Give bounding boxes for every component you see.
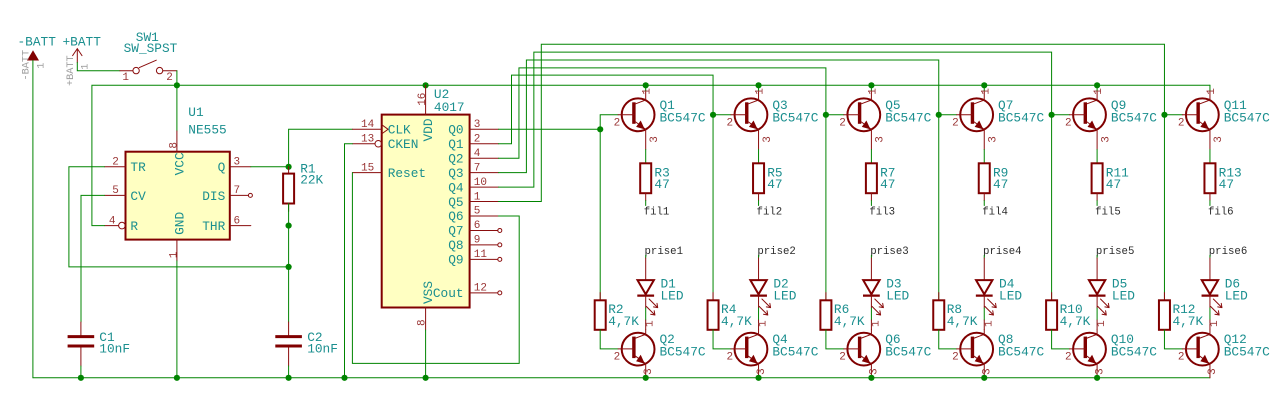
svg-text:4,7K: 4,7K [947, 314, 978, 329]
D1 reference [661, 276, 677, 291]
wire q6 reset [352, 173, 519, 364]
resistor R13 47 [1204, 163, 1215, 200]
resistor R8 4,7K [933, 293, 944, 330]
svg-text:2: 2 [474, 133, 481, 145]
transistor Q1 BC547C (top) [618, 90, 654, 149]
U1 reference designator [188, 105, 204, 120]
D6 value LED [1225, 289, 1248, 304]
svg-text:fil6: fil6 [1208, 206, 1234, 218]
svg-text:1: 1 [642, 88, 654, 95]
wire D4 cathode to Q8 collector [983, 296, 985, 308]
R8 reference [947, 302, 962, 317]
wire q3 bus [499, 60, 939, 173]
Q3 pin 1 number [755, 88, 767, 95]
transistor Q4 BC547C (bottom) [731, 329, 767, 377]
R4 value 4,7K [721, 314, 752, 329]
Q8 pin 1 number [983, 320, 995, 327]
R10 reference [1060, 302, 1083, 317]
wire prise6 to LED D6 [1209, 255, 1211, 258]
Q9 pin 3 number [1100, 136, 1112, 143]
svg-text:fil1: fil1 [644, 206, 670, 218]
wire base h [826, 114, 844, 116]
junction C1 gnd [78, 375, 84, 381]
svg-text:SW_SPST: SW_SPST [124, 41, 178, 56]
Q8 pin 3 number [981, 368, 993, 375]
wire base bottom [600, 330, 618, 349]
R5 reference [767, 165, 782, 180]
svg-text:1: 1 [755, 88, 767, 95]
R2 value 4,7K [608, 314, 639, 329]
D2 value LED [773, 289, 796, 304]
svg-text:2: 2 [614, 352, 621, 364]
R6 reference [834, 302, 849, 317]
svg-text:Q6: Q6 [448, 209, 463, 224]
svg-text:6: 6 [474, 220, 481, 232]
wire TR loop [69, 167, 289, 267]
transistor Q6 BC547C (bottom) [844, 329, 880, 377]
LED D2 [750, 280, 770, 315]
svg-text:BC547C: BC547C [660, 110, 706, 125]
wire +BATT to SW1 pin1 [77, 63, 120, 71]
svg-text:4: 4 [474, 148, 481, 160]
wire q0 [499, 128, 601, 130]
D3 reference [886, 276, 901, 291]
svg-text:BC547C: BC547C [998, 110, 1044, 125]
junction collector [643, 82, 649, 88]
Q5 pin 3 number [875, 136, 887, 143]
resistor R7 47 [866, 163, 877, 200]
junction emitter gnd [755, 375, 761, 381]
D5 reference [1112, 276, 1127, 291]
wire to U1 pin8 [176, 85, 178, 131]
svg-text:fil5: fil5 [1095, 206, 1121, 218]
R8 value 4,7K [947, 314, 978, 329]
junction col2 base [710, 112, 716, 118]
R5 value 47 [767, 177, 782, 192]
wire fil stub [1209, 201, 1211, 206]
C1 reference [99, 330, 115, 345]
svg-text:12: 12 [474, 283, 487, 295]
label fil5 [1095, 206, 1121, 218]
R7 value 47 [880, 177, 895, 192]
svg-text:prise2: prise2 [757, 246, 795, 258]
U1 pin 3 Q [218, 157, 251, 176]
svg-text:Q0: Q0 [448, 123, 463, 138]
wire q5 bus [499, 44, 1165, 201]
junction col4 base [936, 112, 942, 118]
svg-text:+BATT: +BATT [63, 34, 102, 49]
resistor R11 47 [1092, 163, 1103, 200]
wire emitter [645, 150, 647, 164]
svg-text:Q: Q [218, 160, 226, 175]
svg-text:2: 2 [726, 117, 733, 129]
Q1 value BC547C [660, 110, 706, 125]
Q8 value BC547C [998, 345, 1044, 360]
U2 pin 15 Reset [352, 162, 426, 181]
wire base bottom [939, 330, 957, 349]
wire q2 bus [499, 68, 826, 158]
svg-text:15: 15 [361, 162, 374, 174]
wire +V rail [177, 84, 1210, 86]
Q3 pin 3 number [762, 136, 774, 143]
transistor Q8 BC547C (bottom) [957, 329, 993, 377]
svg-text:prise3: prise3 [870, 246, 908, 258]
svg-text:3: 3 [762, 136, 774, 143]
svg-text:LED: LED [999, 289, 1022, 304]
svg-text:2: 2 [1065, 352, 1072, 364]
junction col6 base [1161, 112, 1167, 118]
LED D4 [976, 280, 996, 315]
pin number 2 of SW1 [166, 72, 173, 84]
svg-text:3: 3 [1207, 368, 1219, 375]
Q4 pin 3 number [756, 368, 768, 375]
svg-text:CV: CV [130, 189, 146, 204]
U1 pin 7 DIS (unconnected) [202, 185, 252, 204]
svg-text:2: 2 [952, 352, 959, 364]
U2 pin 12 Cout (unconnected) [433, 283, 502, 302]
svg-text:1: 1 [37, 63, 48, 69]
R12 value 4,7K [1172, 314, 1203, 329]
resistor R10 4,7K [1046, 293, 1057, 330]
Q6 pin 1 number [870, 320, 882, 327]
svg-text:BC547C: BC547C [772, 345, 818, 360]
Q12 value BC547C [1224, 345, 1270, 360]
svg-text:3: 3 [643, 368, 655, 375]
LED D6 [1202, 280, 1222, 315]
U1 pin 1 GND [168, 212, 187, 261]
svg-text:Q3: Q3 [448, 166, 463, 181]
junction collector [981, 82, 987, 88]
svg-text:prise6: prise6 [1209, 246, 1247, 258]
svg-text:U1: U1 [188, 105, 204, 120]
wire emitter [870, 150, 872, 164]
svg-text:Cout: Cout [433, 286, 464, 301]
svg-text:4,7K: 4,7K [1060, 314, 1091, 329]
Q1 pin 2 number [614, 117, 621, 129]
svg-text:1: 1 [1096, 320, 1108, 327]
label prise6 [1209, 246, 1247, 258]
wire fil stub [870, 201, 872, 206]
svg-text:R: R [130, 219, 138, 234]
svg-text:14: 14 [361, 119, 375, 131]
svg-text:1: 1 [980, 88, 992, 95]
resistor R1 22K [283, 167, 294, 212]
Q2 reference [660, 332, 675, 347]
junction collector [868, 82, 874, 88]
D3 value LED [886, 289, 909, 304]
svg-text:10nF: 10nF [307, 341, 338, 356]
wire q1 bus [499, 75, 714, 144]
Q3 pin 2 number [726, 117, 733, 129]
junction emitter gnd [643, 375, 649, 381]
label fil6 [1208, 206, 1234, 218]
svg-text:3: 3 [1094, 368, 1106, 375]
Q1 pin 1 number [642, 88, 654, 95]
svg-text:Q7: Q7 [448, 224, 463, 239]
wire base down [938, 115, 940, 300]
junction U1 gnd [174, 375, 180, 381]
wire cken gnd [345, 144, 353, 378]
U2 pin 3 Q0 [448, 119, 498, 138]
Q9 reference [1111, 98, 1126, 113]
wire r1 bottom [288, 204, 290, 226]
svg-text:4,7K: 4,7K [1172, 314, 1203, 329]
wire base bottom [1052, 330, 1070, 349]
R7 reference [880, 165, 895, 180]
D4 reference [999, 276, 1015, 291]
label prise2 [757, 246, 795, 258]
wire base down [825, 115, 827, 300]
svg-text:3: 3 [474, 119, 481, 131]
transistor Q3 BC547C (top) [731, 90, 767, 149]
svg-text:LED: LED [1225, 289, 1248, 304]
wire D3 cathode to Q6 collector [870, 296, 872, 308]
Q6 reference [885, 332, 900, 347]
svg-text:prise4: prise4 [983, 246, 1021, 258]
wire base h [1052, 114, 1070, 116]
svg-text:VDD: VDD [421, 118, 436, 141]
wire coll [1209, 85, 1211, 90]
resistor R12 4,7K [1159, 293, 1170, 330]
D1 value LED [661, 289, 684, 304]
wire base down [712, 115, 714, 300]
svg-text:NE555: NE555 [188, 123, 226, 138]
svg-text:11: 11 [474, 249, 488, 261]
junction cken gnd [341, 375, 347, 381]
Q11 pin 3 number [1213, 136, 1225, 143]
svg-text:-BATT: -BATT [18, 34, 57, 49]
svg-text:8: 8 [416, 319, 428, 326]
svg-text:1: 1 [81, 64, 92, 70]
Q12 pin 3 number [1207, 368, 1219, 375]
U1 pin 6 THR [202, 215, 251, 234]
wire base bottom [826, 330, 844, 349]
junction emitter gnd [981, 375, 987, 381]
svg-text:Q4: Q4 [448, 180, 464, 195]
Q12 reference [1224, 332, 1247, 347]
svg-text:LED: LED [886, 289, 909, 304]
svg-text:BC547C: BC547C [885, 110, 931, 125]
wire D6 cathode to Q12 collector [1209, 296, 1211, 308]
transistor Q11 BC547C (top) [1182, 90, 1218, 149]
D6 reference [1225, 276, 1240, 291]
wire to CLK [289, 129, 353, 167]
counter U2 4017 body [382, 115, 470, 308]
wire col1 base down [599, 129, 601, 300]
svg-text:2: 2 [839, 117, 846, 129]
wire prise4 to LED D4 [983, 255, 985, 258]
svg-text:3: 3 [981, 368, 993, 375]
svg-text:3: 3 [987, 136, 999, 143]
svg-text:3: 3 [1213, 136, 1225, 143]
svg-text:4017: 4017 [434, 100, 465, 115]
label fil1 [644, 206, 670, 218]
R4 reference [721, 302, 737, 317]
wire base h [939, 114, 957, 116]
svg-text:BC547C: BC547C [660, 345, 706, 360]
svg-text:4,7K: 4,7K [834, 314, 865, 329]
wire thr down [288, 226, 290, 267]
Q7 value BC547C [998, 110, 1044, 125]
wire D5 cathode to Q10 collector [1096, 296, 1098, 308]
U2 pin 7 Q3 [448, 162, 498, 181]
svg-text:TR: TR [130, 160, 146, 175]
svg-text:CLK: CLK [388, 123, 411, 138]
junction emitter gnd [868, 375, 874, 381]
R3 reference [654, 165, 669, 180]
svg-text:CKEN: CKEN [388, 137, 419, 152]
Q1 pin 3 number [649, 136, 661, 143]
Q11 pin 2 number [1178, 117, 1185, 129]
wire C2 gnd [288, 366, 290, 378]
svg-text:3: 3 [1100, 136, 1112, 143]
Q6 pin 3 number [869, 368, 881, 375]
svg-text:3: 3 [875, 136, 887, 143]
Q10 reference [1111, 332, 1134, 347]
label prise4 [983, 246, 1021, 258]
svg-text:LED: LED [661, 289, 684, 304]
Q12 pin 2 number [1178, 352, 1185, 364]
wire prise2 to LED D2 [758, 255, 760, 258]
junction vss gnd [423, 375, 429, 381]
svg-text:2: 2 [1065, 117, 1072, 129]
svg-text:2: 2 [952, 117, 959, 129]
svg-text:Q8: Q8 [448, 238, 463, 253]
Q4 value BC547C [772, 345, 818, 360]
LED D5 [1089, 280, 1109, 315]
Q5 pin 2 number [839, 117, 846, 129]
svg-text:3: 3 [649, 136, 661, 143]
resistor R2 4,7K [595, 293, 606, 330]
svg-text:GND: GND [172, 212, 187, 235]
label prise1 [645, 246, 683, 258]
wire fil stub [1096, 201, 1098, 206]
svg-text:Q2: Q2 [448, 151, 463, 166]
Q11 pin 1 number [1206, 88, 1218, 95]
svg-text:VCC: VCC [172, 152, 187, 175]
svg-text:-BATT: -BATT [21, 50, 32, 81]
junction dot VCC node [174, 82, 180, 88]
svg-text:22K: 22K [300, 172, 323, 187]
Q6 value BC547C [885, 345, 931, 360]
svg-text:LED: LED [1112, 289, 1135, 304]
U2 pin 16 VDD [417, 85, 436, 141]
Q10 pin 1 number [1096, 320, 1108, 327]
wire D2 cathode to Q4 collector [758, 296, 760, 308]
wire base bottom [713, 330, 731, 349]
Q2 value BC547C [660, 345, 706, 360]
svg-text:5: 5 [112, 185, 119, 197]
U1 value NE555 [188, 123, 226, 138]
junction collector [755, 82, 761, 88]
R13 reference [1219, 165, 1242, 180]
wire prise1 to LED D1 [645, 255, 647, 258]
Q2 pin 3 number [643, 368, 655, 375]
Q4 pin 1 number [758, 320, 770, 327]
svg-text:1: 1 [983, 320, 995, 327]
resistor R5 47 [753, 163, 764, 200]
U1 pin 4 R (inverted) [105, 215, 139, 234]
U1 pin 8 VCC [168, 131, 187, 175]
label fil2 [757, 206, 783, 218]
Q11 value BC547C [1224, 110, 1270, 125]
R2 reference [608, 302, 623, 317]
svg-text:2: 2 [614, 117, 621, 129]
svg-text:5: 5 [474, 206, 481, 218]
switch SW1 SW_SPST [120, 30, 178, 74]
wire reset high [92, 85, 177, 225]
U2 pin 6 Q7 [448, 220, 502, 239]
svg-text:7: 7 [234, 185, 241, 197]
R13 value 47 [1219, 177, 1234, 192]
U2 pin 9 Q8 [448, 235, 502, 254]
svg-text:2: 2 [1178, 117, 1185, 129]
svg-text:47: 47 [1106, 177, 1121, 192]
Q5 pin 1 number [867, 88, 879, 95]
Q7 pin 1 number [980, 88, 992, 95]
junction THR [286, 223, 292, 229]
svg-text:4,7K: 4,7K [721, 314, 752, 329]
U1 pin 5 CV [105, 185, 147, 204]
capacitor C1 10nF [68, 322, 95, 366]
wire base h [1164, 114, 1182, 116]
Q7 reference [998, 98, 1013, 113]
wire vss gnd [425, 330, 427, 378]
D5 value LED [1112, 289, 1135, 304]
svg-text:2: 2 [166, 72, 173, 84]
transistor Q7 BC547C (top) [957, 90, 993, 149]
svg-text:prise1: prise1 [645, 246, 683, 258]
U2 pin 11 Q9 [448, 249, 502, 268]
svg-text:47: 47 [993, 177, 1008, 192]
svg-text:prise5: prise5 [1096, 246, 1134, 258]
wire D1 cathode to Q2 collector [645, 296, 647, 308]
svg-text:BC547C: BC547C [1224, 110, 1270, 125]
transistor Q9 BC547C (top) [1070, 90, 1106, 149]
U2 pin 2 Q1 [448, 133, 498, 152]
D2 reference [773, 276, 788, 291]
U2 value 4017 [434, 100, 465, 115]
svg-text:Q1: Q1 [448, 137, 464, 152]
svg-text:2: 2 [1178, 352, 1185, 364]
wire to C2 [288, 267, 290, 322]
svg-text:47: 47 [654, 177, 669, 192]
wire base down [1163, 115, 1165, 300]
svg-text:BC547C: BC547C [772, 110, 818, 125]
svg-text:1: 1 [870, 320, 882, 327]
op-amp U1 NE555 body [126, 152, 230, 240]
U2 pin 5 Q6 [448, 206, 498, 225]
R11 reference [1106, 165, 1129, 180]
resistor R4 4,7K [708, 293, 719, 330]
wire emitter [758, 150, 760, 164]
capacitor C2 10nF [275, 322, 302, 366]
wire emitter [1209, 150, 1211, 164]
wire emitter [1096, 150, 1098, 164]
svg-text:1: 1 [122, 72, 129, 84]
wire emitter [983, 150, 985, 164]
transistor Q2 BC547C (bottom) [618, 329, 654, 377]
svg-text:BC547C: BC547C [885, 345, 931, 360]
U2 reference designator [434, 87, 449, 102]
Q3 value BC547C [772, 110, 818, 125]
U1 pin 2 TR [105, 157, 147, 176]
R12 reference [1172, 302, 1195, 317]
svg-text:BC547C: BC547C [998, 345, 1044, 360]
Q3 reference [772, 98, 787, 113]
svg-text:3: 3 [234, 157, 241, 169]
C2 value 10nF [307, 341, 338, 356]
